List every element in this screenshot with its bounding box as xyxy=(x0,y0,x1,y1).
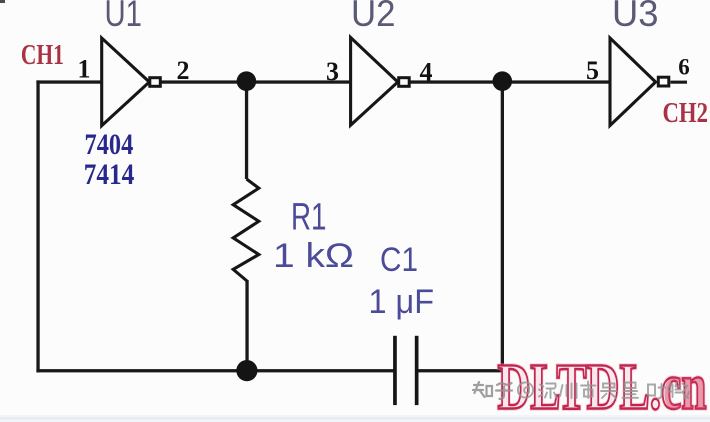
op-amp U2 inverter triangle xyxy=(351,38,398,126)
op-amp U2 inverter bubble xyxy=(399,78,410,87)
wire: pin 6 output stub xyxy=(671,81,688,84)
wire: resistor bottom vertical xyxy=(245,280,248,371)
svg-text:7404: 7404 xyxy=(85,128,134,161)
svg-text:1 kΩ: 1 kΩ xyxy=(273,237,354,275)
corner artifact mark xyxy=(0,0,5,3)
watermark zhihu logo gray glyphs xyxy=(473,382,512,399)
wire: U1 output to U2 input (node 2/3) xyxy=(161,80,352,83)
svg-text:R1: R1 xyxy=(291,196,327,238)
svg-text:C1: C1 xyxy=(380,241,418,279)
node A junction dot (U1 out / R1 top) xyxy=(237,71,257,91)
capacitor C1 left plate xyxy=(393,336,397,405)
wire: right vertical (node 5 down to bottom rail) xyxy=(501,82,504,372)
op-amp U3 inverter bubble xyxy=(658,77,669,86)
wire: pin 1 horizontal xyxy=(36,80,102,83)
node C junction dot (bottom rail / R1 bottom) xyxy=(236,360,257,381)
svg-text:1: 1 xyxy=(78,55,91,84)
node B junction dot (U2 out / right branch) xyxy=(493,71,513,91)
svg-text:3: 3 xyxy=(326,57,339,86)
op-amp U1 inverter bubble xyxy=(150,78,161,87)
op-amp U3 inverter triangle xyxy=(610,38,656,126)
svg-text:2: 2 xyxy=(177,56,190,85)
svg-text:7414: 7414 xyxy=(84,158,135,191)
svg-text:U1: U1 xyxy=(105,0,143,34)
op-amp U1 inverter triangle xyxy=(102,38,150,126)
svg-text:U2: U2 xyxy=(351,0,396,34)
svg-text:5: 5 xyxy=(586,56,599,85)
svg-text:6: 6 xyxy=(678,55,690,80)
bottom edge band xyxy=(0,415,710,422)
wire: bottom rail left of capacitor xyxy=(36,369,395,372)
wire: bottom rail right of capacitor xyxy=(417,369,505,372)
svg-text:1 μF: 1 μF xyxy=(369,283,435,321)
resistor R1 zigzag xyxy=(233,179,259,281)
wire: resistor top vertical xyxy=(245,82,248,179)
wire: U2 output to U3 input (node 4/5) xyxy=(411,80,612,83)
svg-text:4: 4 xyxy=(420,58,433,87)
svg-text:CH2: CH2 xyxy=(663,97,709,129)
watermark at-sign and company gray glyphs xyxy=(518,382,689,399)
wire: left vertical (node 1 to bottom rail) xyxy=(36,80,39,372)
svg-text:U3: U3 xyxy=(612,0,659,34)
capacitor C1 right plate xyxy=(415,336,419,405)
svg-text:CH1: CH1 xyxy=(21,39,64,71)
